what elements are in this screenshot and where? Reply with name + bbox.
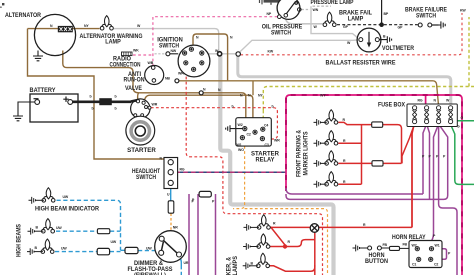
svg-text:HIGH BEAM INDICATOR: HIGH BEAM INDICATOR [35, 207, 100, 213]
wire KW red dashed ballast resister wire [241, 13, 463, 55]
svg-text:NR: NR [173, 226, 178, 230]
inline fuse parking lamp circuit B [372, 161, 383, 166]
battery [30, 94, 78, 122]
svg-text:NY: NY [84, 24, 89, 28]
svg-text:RADIO: RADIO [113, 56, 131, 62]
svg-text:C1: C1 [412, 263, 416, 267]
connector on U wire [168, 201, 174, 213]
brake failure switch ground [439, 21, 446, 28]
wire N brown alternator lower branch [63, 51, 139, 93]
svg-text:NP: NP [267, 12, 272, 16]
wire NB tan anti run-on valve to fuse 3 [179, 81, 439, 104]
wire R red lamp3 feed through inline fuse [338, 162, 401, 164]
alternator ground [33, 51, 43, 61]
svg-text:NW: NW [171, 49, 177, 53]
ignition aux connector circle NW [166, 52, 170, 56]
svg-text:C2: C2 [247, 133, 251, 137]
oil pressure switch [277, 0, 301, 19]
svg-text:RUN-ON: RUN-ON [124, 77, 145, 83]
front parking lamp 3 [314, 151, 338, 167]
label HIGH BEAMS vertical [17, 224, 23, 257]
svg-text:VALVE: VALVE [125, 86, 142, 92]
dimmer flash-to-pass switch [155, 231, 187, 263]
open connector circle W [236, 52, 240, 56]
battery ground [13, 102, 35, 121]
junction dot W [218, 52, 222, 56]
wire NR orange dashed connector to dimmer [170, 213, 172, 230]
marker lamp 2 [243, 234, 270, 250]
wire R red marker lamp3 loop [269, 265, 315, 271]
svg-text:CONNECTION: CONNECTION [110, 63, 141, 69]
wire NW gray dashed to ignition aux terminal [155, 53, 179, 55]
wire N brown alternator output to warning lamp [28, 28, 100, 30]
front parking lamp 2 [314, 131, 338, 147]
wire U blue headlight switch to connector [170, 186, 172, 201]
svg-text:FB: FB [403, 243, 408, 247]
alternator warning lamp [100, 16, 113, 30]
wire P purple fuse3 branch to left bus corner [430, 124, 448, 199]
label BATTERY [30, 88, 56, 94]
svg-text:b: b [232, 105, 234, 109]
label HIGH BEAM INDICATOR [35, 207, 100, 213]
wire R red marker lamp2 to junction and loop [269, 240, 315, 247]
wire P purple fuse3 to horn relay W1 [432, 124, 439, 246]
connector on parking bus [199, 191, 211, 197]
wire R red front parking lamp bus vertical [361, 127, 363, 184]
fuse box [407, 104, 457, 127]
svg-text:BP: BP [384, 12, 389, 16]
label FRONT PARKING & MARKER LIGHTS vertical [297, 129, 310, 177]
wire P purple drops from bus to bottom [189, 194, 216, 275]
wire UW blue dashed high beam lamp2 run [56, 230, 121, 232]
wire W gray vertical branch to pressure lamp and voltmeter [311, 6, 358, 38]
open connector circle NB [175, 79, 179, 83]
fuse 1 [412, 106, 416, 124]
high beam indicator lamp [29, 188, 56, 204]
wire W gray alternator warning lamp to ignition junction [114, 29, 219, 52]
svg-text:WR: WR [178, 72, 184, 76]
svg-text:W2: W2 [238, 123, 243, 127]
svg-text:PRESSURE LAMP: PRESSURE LAMP [311, 0, 354, 6]
starter relay [236, 118, 271, 146]
svg-text:SWITCH: SWITCH [416, 13, 436, 19]
svg-text:RELAY: RELAY [256, 158, 275, 164]
label FUSE BOX [378, 103, 405, 109]
alternator connector block [58, 26, 73, 32]
wire W gray oil pressure switch to brake fail lamp [286, 17, 323, 24]
svg-text:LAMP: LAMP [348, 16, 364, 22]
connector on lamp2 run [97, 229, 109, 234]
oil pressure switch left terminal [278, 15, 282, 19]
high beam lamp 3 [27, 239, 54, 255]
label VOLTMETER [382, 45, 414, 52]
svg-text:UW: UW [56, 226, 62, 230]
svg-text:HIGH BEAMS: HIGH BEAMS [17, 224, 23, 257]
wire W gray connector to voltmeter run [239, 40, 358, 53]
wire W heavy gray band from ignition junction down and right to bottom [220, 55, 333, 275]
svg-text:GP: GP [398, 26, 404, 30]
svg-text:UR: UR [184, 261, 189, 265]
starter solenoid [131, 99, 151, 118]
svg-text:NB: NB [165, 77, 170, 81]
fuse 3 [436, 106, 440, 124]
svg-text:C2: C2 [434, 263, 438, 267]
svg-text:W2: W2 [412, 243, 417, 247]
svg-text:RG: RG [180, 168, 185, 172]
svg-text:FB: FB [383, 243, 388, 247]
alternator [34, 14, 75, 55]
label HORN BUTTON [365, 253, 388, 265]
inline fuse parking lamp circuit A [372, 122, 383, 127]
starter relay ground [226, 125, 243, 132]
label BALLAST RESISTER WIRE [326, 59, 396, 66]
wire WN gray dashed oil pressure switch to lamp [302, 9, 311, 11]
svg-text:UW: UW [146, 247, 152, 251]
svg-text:UW: UW [61, 247, 67, 251]
svg-text:G: G [461, 116, 464, 120]
svg-text:UW: UW [63, 195, 69, 199]
svg-text:b: b [115, 107, 117, 111]
red junction dot marker lamps [283, 244, 287, 248]
horn relay [409, 241, 442, 268]
fuse 2 [424, 106, 428, 124]
wire P purple horn relay W1 to C2 jog [433, 249, 446, 260]
wire N brown drops to starter relay W2 C2 [252, 81, 254, 95]
svg-text:G: G [457, 125, 460, 129]
voltmeter [357, 28, 381, 52]
starter motor [126, 116, 155, 145]
voltmeter ground [379, 36, 391, 43]
svg-text:BATTERY: BATTERY [30, 88, 56, 94]
svg-text:STARTER: STARTER [127, 148, 156, 154]
ignition switch [178, 45, 210, 77]
front parking lamp 4 [314, 172, 338, 188]
battery cable heavy [73, 101, 131, 104]
label ALTERNATOR WARNING LAMP [80, 34, 143, 46]
label BRAKE FAIL LAMP [339, 10, 372, 22]
wire R red marker lamp1 to junction [269, 227, 310, 246]
wire P magenta main feed bus to fuse 2 and bottom right [286, 95, 462, 275]
wire N brown alternator to headlight switch [28, 29, 164, 159]
svg-text:WN: WN [313, 8, 319, 12]
label OIL PRESSURE SWITCH [262, 25, 303, 37]
svg-text:ALTERNATOR: ALTERNATOR [5, 13, 42, 19]
wire P purple fuse2 to lower bus [286, 124, 430, 199]
wire LGN yellow-green dashed run to right edge [263, 17, 474, 110]
label HEADLIGHT SWITCH [132, 169, 160, 181]
wire NP pink dashed radio and ignition to oil pressure switch [133, 17, 278, 67]
top-left corner tick [0, 3, 4, 8]
svg-text:b: b [90, 95, 92, 99]
svg-text:FUSE BOX: FUSE BOX [378, 103, 405, 109]
junction dot GP [379, 22, 384, 27]
wire R red circle-x drop to bottom [314, 232, 316, 275]
wire UW blue dashed high beam lamp3 run [55, 250, 155, 251]
label HORN RELAY [392, 235, 426, 241]
svg-text:WY: WY [320, 94, 326, 98]
svg-text:b: b [92, 107, 94, 111]
wire GP black dashed brake fail lamp to switch [337, 24, 439, 26]
label MARKER TAIL LAMPS vertical cut at bottom [227, 256, 240, 275]
wire WR red dashed ignition to relay route [186, 72, 322, 275]
svg-text:PARKING, MARKER, &: PARKING, MARKER, & [227, 256, 233, 275]
wire R red lamp2 feed [338, 142, 361, 144]
connector on lamp3 run [97, 248, 109, 254]
wire W gray ignition switch to junction and connector [204, 53, 240, 55]
wire P purple parking bus [286, 188, 423, 194]
wire P purple fuse3 down jog right to bottom [439, 124, 457, 275]
wire N brown bus from starter solenoid [138, 93, 253, 130]
svg-text:HORN RELAY: HORN RELAY [392, 235, 426, 241]
wire N brown ignition switch feed loop [193, 34, 228, 81]
svg-text:TAIL LAMPS: TAIL LAMPS [233, 256, 239, 275]
svg-text:RG: RG [418, 99, 423, 103]
label ANTI RUN-ON VALVE [124, 72, 145, 92]
svg-text:FRONT PARKING &: FRONT PARKING & [297, 129, 303, 177]
svg-text:SWITCH: SWITCH [136, 175, 156, 181]
label STARTER [127, 148, 156, 154]
wire W heavy gray ballast feed to fuse 4 [238, 56, 451, 106]
label ALTERNATOR [5, 13, 42, 19]
wire P purple fuse2 to bus [423, 124, 427, 194]
anti run-on valve [145, 66, 164, 85]
ignition coil cut at top [260, 0, 286, 5]
svg-text:SWITCH: SWITCH [271, 31, 291, 37]
svg-text:W1: W1 [237, 143, 242, 147]
wire BP black vertical to junction [381, 0, 383, 25]
svg-text:GP: GP [343, 25, 349, 29]
svg-text:WR: WR [274, 139, 280, 143]
svg-text:VOLTMETER: VOLTMETER [382, 45, 414, 52]
brake failure switch contacts [418, 23, 432, 27]
svg-text:b: b [272, 105, 274, 109]
label PRESSURE LAMP cut at top [311, 0, 354, 6]
svg-text:WB: WB [148, 61, 154, 65]
svg-text:C4: C4 [264, 123, 268, 127]
svg-text:MARKER LIGHTS: MARKER LIGHTS [304, 132, 310, 176]
horn button [353, 245, 390, 252]
label IGNITION SWITCH [157, 38, 183, 50]
svg-text:C3: C3 [265, 143, 269, 147]
wire R red horn circuit bus [319, 131, 412, 227]
circle-X harness connector [310, 224, 319, 233]
svg-text:WK: WK [133, 49, 139, 53]
wire UR blue dimmer to bottom [180, 257, 182, 275]
horn button connector [390, 246, 415, 250]
label RADIO CONNECTION [110, 56, 141, 68]
wire UW blue dashed high beam indicator run [57, 200, 121, 250]
svg-text:LAMP: LAMP [105, 40, 121, 46]
label STARTER RELAY [251, 152, 280, 164]
svg-text:WR: WR [152, 103, 158, 107]
wire WO orange dashed relay W1 down to bus and bottom [233, 146, 328, 275]
wire R red fuse1 to parking lamp circuits [402, 126, 414, 227]
svg-text:KW: KW [268, 50, 274, 54]
wire LGN yellow-green drop to relay C4 [262, 110, 265, 126]
svg-text:UW: UW [111, 240, 117, 244]
label DIMMER & FLASH-TO-PASS [128, 261, 173, 275]
connector before dimmer [125, 247, 138, 253]
wire G green fuse4 to right edge [453, 120, 474, 122]
marker lamp 3 [243, 253, 270, 269]
radio connection [122, 52, 133, 56]
svg-text:KW: KW [460, 9, 466, 13]
wire RG headlight switch to magenta bus [178, 171, 286, 173]
wire R red lamp1 feed through inline fuse [338, 122, 401, 163]
wire G green fuse4 lower branch to right edge [452, 127, 474, 185]
wire WR red dashed solenoid to starter relay C3 [151, 108, 278, 139]
svg-text:BALLAST RESISTER WIRE: BALLAST RESISTER WIRE [326, 59, 396, 66]
brake fail lamp [323, 12, 336, 26]
svg-text:WO: WO [238, 148, 244, 152]
svg-text:NY: NY [258, 94, 263, 98]
fuse 4 [448, 106, 452, 124]
open connector circle N [199, 91, 203, 95]
headlight switch [164, 158, 178, 189]
svg-text:BUTTON: BUTTON [365, 259, 388, 265]
svg-text:W1: W1 [435, 243, 440, 247]
high beam lamp 2 [28, 219, 55, 235]
wire R red lamp4 feed [338, 183, 361, 185]
svg-text:b: b [115, 95, 117, 99]
label BRAKE FAILURE SWITCH [405, 7, 447, 19]
front parking lamp 1 [314, 110, 338, 126]
inline connector on battery cable [99, 98, 112, 105]
marker lamp 1 [244, 215, 271, 231]
